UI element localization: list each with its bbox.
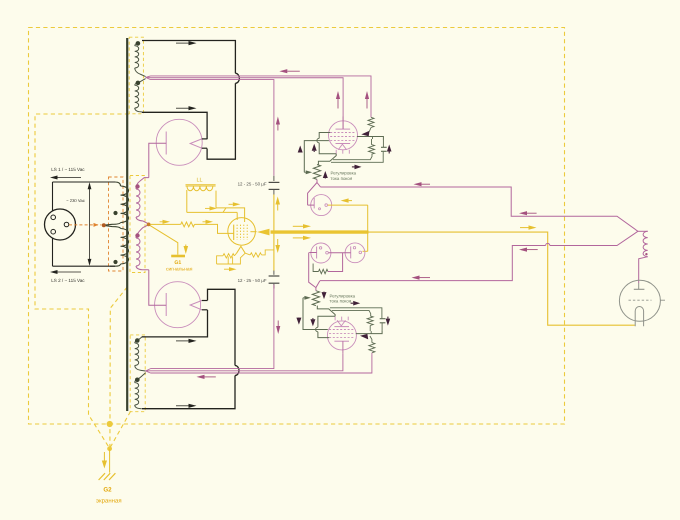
svg-text:G2: G2 (103, 487, 112, 494)
black wire to bottom anode (top loop) (207, 83, 235, 159)
V3 pins (335, 150, 337, 154)
mains plug left wire (52, 182, 54, 211)
yellow down arrow below bus (277, 239, 279, 245)
LS2 direction arrow (58, 271, 82, 273)
svg-text:тока покоя: тока покоя (330, 299, 352, 304)
heater tube S2 (311, 243, 331, 263)
screen feed arrow into V3 (361, 131, 369, 137)
arrow on lower choke wire (205, 207, 210, 209)
S2 feed wire (309, 252, 316, 254)
svg-text:сигнальная: сигнальная (166, 266, 193, 272)
V5 bottom rail arrow (224, 268, 229, 270)
G1 down arrow (185, 245, 187, 247)
dark right arrow above cathode rails (bottom) (351, 302, 354, 304)
G2 chassis ground symbol (99, 473, 105, 480)
grid3 wire hop over grid1 wire (317, 138, 319, 142)
V4 grid 2 dashes (329, 333, 355, 335)
V4 bypass capacitor (380, 318, 386, 320)
plug pin 2 (51, 229, 56, 234)
filter capacitor C1 lead (273, 176, 275, 181)
V6 filament (635, 307, 643, 327)
HT thick bus arrowhead (257, 229, 270, 236)
V3 filament (338, 144, 346, 150)
choke loop lower wire (187, 211, 237, 213)
V3 plate supply wire (342, 117, 344, 130)
S1 electrode bar (313, 198, 315, 208)
pot wiper arrow (304, 171, 305, 173)
output line arrow a (422, 183, 431, 185)
V5 filament (237, 246, 246, 253)
V5 heater pin stubs (227, 257, 229, 265)
output line arrow d (527, 249, 538, 251)
plug pin 1 (51, 215, 56, 220)
screen resistor (top) (368, 117, 374, 127)
filter capacitor C1 (269, 181, 280, 183)
current arrow wire1' (bottom) (176, 405, 189, 407)
mains plug connector (45, 209, 76, 240)
orange dashed neutral line (69, 224, 102, 226)
thick bus arrow below (293, 237, 303, 239)
dark down arrow left of V4 a (298, 317, 300, 320)
V2 cathode bar (165, 293, 167, 316)
svg-text:LS 1 / ~ 115 Vac: LS 1 / ~ 115 Vac (51, 167, 85, 172)
cathode rail 1 (to R2) (333, 154, 372, 160)
mains wire LS2 (53, 265, 116, 267)
hop over HV bus (bottom) (235, 366, 239, 376)
dark right arrow below cathode rails (352, 166, 355, 168)
V1 cathode bar (165, 132, 167, 155)
dark up arrow left of V3 b (313, 151, 315, 152)
pentode V4 (327, 321, 356, 350)
output tube V6 (619, 280, 660, 321)
filter capacitor C2 lead (273, 271, 275, 275)
bias wire arrow 1 (160, 221, 163, 223)
cathode rail 1 bottom (332, 310, 371, 316)
pot top node (bottom channel) (309, 253, 316, 288)
choke loop upper wire (216, 208, 245, 222)
svg-text:12 - 25 - 50 µF: 12 - 25 - 50 µF (238, 182, 267, 187)
svg-text:LL: LL (197, 178, 203, 184)
HT thin wire to output stage (369, 232, 635, 325)
230 Vac measurement double arrow (89, 185, 91, 264)
hop over heater wire (546, 243, 550, 245)
V3 plate bar (336, 128, 351, 130)
svg-text:LS 2 / ~ 115 Vac: LS 2 / ~ 115 Vac (51, 278, 85, 283)
inner dashed screen boundary (35, 114, 129, 448)
S1 pin b (319, 208, 321, 210)
V3 grid 1 dashes (330, 140, 356, 142)
dark up arrow by bypass cap (388, 152, 390, 154)
thick bus arrow above (293, 225, 303, 227)
HV secondary winding top coil 1 (135, 46, 139, 68)
output line arrow b (527, 212, 537, 214)
V3 cathode bar (336, 143, 351, 145)
winding terminal dot (bottom coil 1) (135, 338, 140, 343)
S1 feed wire from bias pot (308, 204, 315, 206)
dark up arrow left of V3 a (299, 151, 301, 154)
cathode rail 2 bottom (330, 308, 382, 319)
V6 grid dashes (629, 299, 652, 301)
pot bottom node (top channel) (308, 183, 317, 206)
core shield dashed line (110, 287, 127, 448)
HV bus top line 1 (151, 76, 372, 117)
svg-text:тока покоя: тока покоя (331, 176, 353, 181)
choke LL (186, 184, 216, 186)
dark down arrow left of V4 b (312, 318, 314, 319)
filter cap line up arrow (277, 125, 279, 131)
heater drop wire x=367.7 (367, 205, 369, 251)
heater secondary winding box (middle) (130, 176, 145, 273)
HV secondary winding top coil 2 (135, 85, 139, 108)
output line bottom channel (320, 246, 546, 281)
heater center tap junction dot (147, 223, 151, 227)
bus current arrow (bottom) (205, 376, 216, 378)
G2 current arrow (103, 452, 105, 461)
pot top lead (bottom) (315, 288, 317, 291)
choke loop jog (223, 208, 226, 213)
V3 grid 2 dashes (330, 136, 356, 138)
output coil dot (645, 253, 647, 255)
V6 grid lead (660, 299, 665, 301)
S3 pin b (359, 251, 362, 254)
HV bus bottom line 3 (151, 355, 372, 373)
V5 dotted cathode columns (236, 225, 238, 240)
arrow on upper choke wire (229, 203, 233, 205)
V5 left anode bar (233, 225, 235, 240)
screen resistor (bottom) (369, 343, 375, 353)
S1 yellow heater wire (328, 204, 368, 206)
HV secondary winding box (top) (129, 37, 143, 114)
filter cap line down arrow (bottom) (277, 321, 279, 327)
V1 cathode wire (149, 143, 166, 177)
V4 grid3 wire (318, 332, 329, 338)
heater winding coil A (136, 189, 140, 217)
current arrow wire1 (top) (176, 42, 189, 44)
bias pot (top) (313, 165, 320, 180)
svg-text:G1: G1 (174, 260, 181, 266)
cathode rail 2 (to bypass cap) (331, 152, 383, 163)
HV bus bottom claw (146, 369, 151, 371)
rectifier tube V2 (155, 282, 201, 328)
V5 top pin wire (236, 212, 238, 220)
primary winding coil 2 (121, 229, 129, 265)
bias wire arrow 2 (203, 221, 206, 223)
V3 cathode lead diagonal (318, 154, 336, 165)
heater winding coil B (136, 238, 140, 266)
output coupling coil (638, 230, 648, 232)
V4 plate bar (334, 340, 349, 342)
rectifier tube V1 (156, 119, 202, 165)
V4 cathode lead diagonal (317, 306, 335, 317)
bias wire from heater center tap (150, 223, 180, 225)
svg-text:экранная: экранная (96, 499, 122, 505)
V5 cathode resistor right (250, 253, 261, 257)
bottom winding box shield dashed line (110, 412, 131, 449)
heater balance resistor (319, 269, 328, 273)
winding terminal dot (top coil 1) (136, 41, 141, 46)
G2 ground node dot (107, 421, 113, 427)
filter capacitor C2 (269, 275, 280, 277)
V4 pins (334, 316, 336, 320)
black wire from lower HV terminal (top) (142, 112, 207, 139)
primary winding dot 1 (113, 211, 117, 215)
G2 convergence dot (107, 446, 112, 451)
yellow up arrow above bus (277, 205, 279, 211)
pot wiper arrow (bottom) (303, 297, 304, 299)
S2 pin b (326, 251, 329, 254)
mains wire LS1 (53, 181, 116, 183)
V4 grid 1 dashes (329, 329, 355, 331)
magenta link cap C2 to bottom bus (273, 285, 275, 289)
dark up arrow by pot label (top) (324, 177, 326, 180)
hop over HV bus (top) (235, 73, 239, 83)
V3 grid3 wire (319, 133, 330, 139)
outer dashed boundary (29, 28, 565, 425)
winding terminal dot (bottom coil 2) (135, 378, 140, 383)
HV bus top line 3 (151, 80, 274, 176)
V5 bottom rail (217, 253, 246, 264)
winding terminal dot (top coil 2) (136, 81, 141, 86)
output coil to V6 plate wire (639, 257, 648, 283)
HT wire arrow (520, 227, 529, 229)
current arrow wire2 (top) (176, 107, 189, 109)
choke left lead (186, 190, 188, 212)
HV secondary winding box (bottom) (130, 335, 145, 412)
bias wire to V5 left anode (195, 224, 234, 233)
S2 pin a (319, 247, 321, 249)
G1 signal ground bar (171, 255, 185, 258)
V3 cathode resistor R2 (369, 145, 375, 155)
V4 grid1 wire to pot wiper (303, 298, 328, 330)
HV secondary bottom coil 1 (135, 343, 139, 366)
V3 grid 3 dashes (330, 132, 356, 134)
black wire from upper HV terminal (bottom) (142, 310, 208, 337)
screen node wires (bottom) (356, 330, 382, 334)
svg-text:~ 230 Vac: ~ 230 Vac (66, 198, 85, 203)
primary winding coil 1 (121, 186, 129, 223)
choke right lead (215, 191, 217, 208)
bias junction to G1 diagonal (150, 225, 178, 254)
heater winding dot A (135, 184, 139, 188)
G2 ground wire (109, 449, 111, 473)
V4 cathode bar (334, 326, 349, 328)
pentode V3 (329, 121, 358, 150)
V4 plate supply wire (342, 341, 344, 353)
black wire from top HV terminal (142, 41, 235, 74)
bus up arrow near plate line (337, 99, 339, 109)
primary center-tap junction dot (102, 223, 106, 227)
screen feed arrow into V4 (360, 334, 368, 340)
V4 filament (337, 320, 345, 326)
S2 electrode bar (316, 247, 318, 259)
heater balance resistor lead right (328, 253, 343, 272)
V6 plate bar (634, 288, 645, 290)
heater winding dot B (135, 233, 139, 237)
HV bus bottom line 1 (top) (151, 285, 274, 369)
grid3 wire to cathode node (319, 143, 336, 154)
HV bus bottom line 2 (151, 354, 343, 371)
V6 plate lead (638, 283, 640, 289)
primary winding dot 2 (113, 260, 117, 264)
transformer core (126, 38, 128, 411)
svg-text:12 - 25 - 50 µF: 12 - 25 - 50 µF (238, 278, 267, 283)
output line arrow c (420, 277, 431, 279)
plug center pin (64, 222, 69, 227)
V5 cathode resistor left (223, 254, 234, 258)
black wire to top anode (bottom loop) (208, 289, 236, 365)
V3 grid1 wire to pot wiper (304, 141, 329, 173)
bus current arrow (top) (287, 70, 300, 72)
LS1 direction arrow (58, 177, 82, 179)
output line top channel (321, 187, 638, 231)
bias pot (bottom) (312, 291, 319, 306)
V5 right anode wire (250, 231, 256, 233)
primary winding box (orange dashed) (109, 177, 124, 271)
pot bottom lead (316, 179, 318, 182)
yellow link cap C1 to bus (273, 195, 275, 271)
HV secondary bottom coil 2 (135, 383, 139, 405)
heater tube S3 (345, 243, 365, 263)
V2 cathode wire (149, 270, 166, 305)
S3 pin a (353, 247, 355, 249)
V4 grid 3 dashes (329, 337, 355, 339)
grid3 wire hop (bottom) (316, 327, 318, 331)
bias resistor R1 (181, 222, 195, 227)
black wire from bottom HV terminal (142, 376, 235, 409)
dark down arrow by bypass cap (bottom) (387, 317, 389, 319)
V3 bypass capacitor (381, 146, 387, 148)
heater tube S1 (311, 195, 332, 216)
HV bus top claw (146, 76, 151, 78)
rectifier tube V5 (228, 218, 256, 246)
screen node wires (357, 137, 384, 141)
V4 cathode resistor R2' (367, 316, 373, 326)
S2-S3 link wire (329, 252, 351, 254)
dark down arrow by pot label (bottom) (323, 291, 325, 294)
current arrow wire2' (bottom) (176, 340, 189, 342)
HT thick bus (271, 230, 369, 233)
grid3 wire to cathode node (bottom) (318, 316, 335, 327)
S1 heater wire arrow (349, 200, 352, 202)
V2 anode (190, 301, 202, 310)
V1 anode (190, 139, 202, 148)
heater wire to S3 (363, 250, 368, 252)
HV bus top line 2 (151, 78, 344, 129)
bus up arrow near screen line (366, 99, 368, 109)
heater balance resistor lead left (313, 264, 318, 272)
S3 electrode bar (350, 246, 352, 258)
S1 pin a (325, 204, 328, 207)
